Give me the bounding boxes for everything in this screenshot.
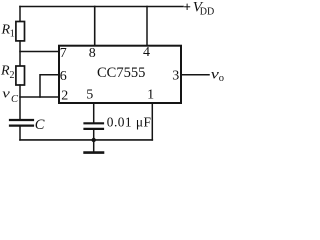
svg-text:0.01 μF: 0.01 μF — [107, 114, 152, 129]
svg-text:v: v — [2, 87, 10, 101]
wire R1 to R2 through node — [19, 41, 21, 66]
node junction dot — [92, 138, 96, 142]
svg-text:o: o — [219, 73, 224, 84]
svg-text:8: 8 — [89, 46, 96, 61]
svg-text:C: C — [35, 117, 45, 133]
wire top rail +VDD — [20, 6, 183, 8]
wire pin 5 to 0.01uF cap — [93, 104, 95, 123]
svg-text:1: 1 — [10, 29, 15, 40]
wire 0.01uF cap to bottom rail — [93, 130, 95, 140]
wire bottom rail — [20, 139, 152, 141]
wire R2 to capacitor C — [19, 85, 21, 119]
wire node to pin 7 — [20, 51, 59, 53]
wire vC node to pin 2 — [20, 96, 59, 98]
ground stub — [93, 140, 95, 152]
wire pin 1 to bottom rail — [151, 104, 153, 140]
op-amp U1 CC7555 timer box — [59, 46, 181, 103]
wire pin 8 to top rail — [94, 7, 96, 46]
svg-text:R: R — [0, 64, 10, 79]
wire C to bottom rail — [19, 127, 21, 140]
ground bar — [85, 151, 103, 154]
capacitor 0.01uF bottom plate — [85, 128, 104, 130]
svg-text:7: 7 — [60, 46, 67, 61]
wire pin 3 output — [181, 74, 209, 76]
resistor R1 — [16, 22, 25, 41]
svg-text:CC7555: CC7555 — [97, 65, 145, 81]
svg-text:DD: DD — [200, 7, 214, 18]
svg-text:2: 2 — [61, 88, 68, 103]
capacitor 0.01uF top plate — [85, 122, 104, 124]
capacitor C top plate — [10, 119, 33, 121]
svg-text:3: 3 — [172, 69, 179, 84]
wire pin 6 hook — [40, 75, 59, 97]
svg-text:1: 1 — [147, 88, 154, 103]
svg-text:2: 2 — [10, 70, 15, 81]
svg-text:C: C — [11, 94, 19, 105]
wire pin 4 to top rail — [146, 7, 148, 46]
svg-text:+: + — [184, 0, 191, 14]
resistor R2 — [16, 66, 25, 85]
capacitor C bottom plate — [10, 124, 33, 126]
svg-text:5: 5 — [86, 88, 93, 103]
svg-text:6: 6 — [60, 69, 67, 84]
svg-text:4: 4 — [143, 45, 150, 60]
wire left vertical (top rail to R1) — [19, 7, 21, 22]
